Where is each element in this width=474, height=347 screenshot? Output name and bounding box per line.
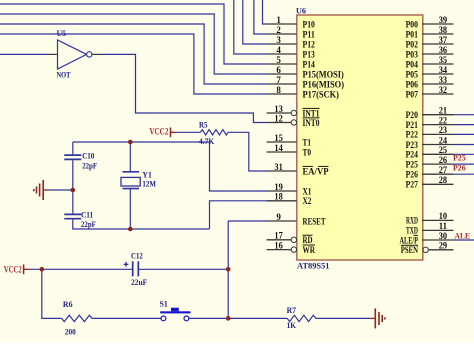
svg-text:P02: P02 bbox=[406, 40, 419, 50]
svg-text:1: 1 bbox=[276, 15, 281, 25]
svg-text:23: 23 bbox=[439, 125, 448, 135]
svg-text:3: 3 bbox=[276, 35, 281, 45]
svg-text:P07: P07 bbox=[406, 90, 419, 100]
svg-text:PSEN: PSEN bbox=[401, 246, 418, 256]
svg-text:U5: U5 bbox=[57, 28, 67, 38]
svg-text:27: 27 bbox=[439, 165, 448, 175]
svg-text:8: 8 bbox=[276, 85, 281, 95]
svg-text:P26: P26 bbox=[453, 162, 466, 172]
svg-text:12: 12 bbox=[274, 113, 283, 123]
svg-text:13: 13 bbox=[274, 104, 283, 114]
svg-text:C10: C10 bbox=[82, 150, 94, 160]
svg-text:1K: 1K bbox=[287, 320, 297, 330]
svg-text:39: 39 bbox=[439, 15, 448, 25]
svg-text:22pF: 22pF bbox=[81, 219, 96, 229]
svg-text:10: 10 bbox=[439, 211, 448, 221]
svg-text:RESET: RESET bbox=[303, 217, 327, 227]
svg-text:37: 37 bbox=[439, 35, 448, 45]
svg-text:12M: 12M bbox=[142, 178, 156, 188]
svg-text:4.7K: 4.7K bbox=[199, 136, 215, 146]
svg-text:P27: P27 bbox=[406, 181, 419, 191]
svg-text:P05: P05 bbox=[406, 70, 419, 80]
svg-text:P24: P24 bbox=[406, 151, 419, 161]
svg-text:P03: P03 bbox=[406, 50, 419, 60]
svg-text:R7: R7 bbox=[287, 305, 297, 315]
svg-text:34: 34 bbox=[439, 65, 448, 75]
svg-text:T0: T0 bbox=[303, 148, 312, 158]
svg-text:P16(MISO): P16(MISO) bbox=[303, 79, 345, 90]
svg-text:R5: R5 bbox=[199, 119, 207, 129]
svg-text:RXD: RXD bbox=[406, 217, 418, 227]
svg-text:7: 7 bbox=[276, 75, 281, 85]
svg-text:X2: X2 bbox=[303, 197, 312, 207]
svg-text:32: 32 bbox=[439, 85, 448, 95]
svg-text:T1: T1 bbox=[303, 138, 312, 148]
svg-text:P10: P10 bbox=[303, 20, 316, 30]
svg-text:28: 28 bbox=[439, 175, 448, 185]
svg-text:36: 36 bbox=[439, 45, 448, 55]
svg-text:VCC2: VCC2 bbox=[4, 265, 22, 275]
svg-text:17: 17 bbox=[274, 231, 283, 241]
svg-text:6: 6 bbox=[276, 65, 281, 75]
svg-text:P26: P26 bbox=[406, 171, 419, 181]
svg-text:P04: P04 bbox=[406, 60, 419, 70]
svg-text:C12: C12 bbox=[131, 250, 143, 260]
svg-text:P21: P21 bbox=[406, 121, 419, 131]
svg-text:2: 2 bbox=[276, 25, 281, 35]
svg-text:ALE: ALE bbox=[455, 231, 471, 241]
svg-text:22: 22 bbox=[439, 115, 448, 125]
svg-text:INT0: INT0 bbox=[303, 119, 320, 129]
svg-text:P20: P20 bbox=[406, 111, 419, 121]
svg-text:200: 200 bbox=[65, 327, 76, 337]
svg-text:NOT: NOT bbox=[57, 70, 71, 80]
svg-text:P00: P00 bbox=[406, 20, 419, 30]
svg-text:S1: S1 bbox=[160, 299, 168, 309]
svg-text:P15(MOSI): P15(MOSI) bbox=[303, 69, 344, 80]
svg-text:P13: P13 bbox=[303, 50, 316, 60]
svg-text:4: 4 bbox=[276, 45, 281, 55]
svg-text:U6: U6 bbox=[296, 6, 307, 16]
svg-text:22uF: 22uF bbox=[131, 277, 147, 287]
svg-text:15: 15 bbox=[274, 133, 283, 143]
svg-text:P01: P01 bbox=[406, 30, 419, 40]
svg-text:16: 16 bbox=[274, 240, 283, 250]
svg-text:33: 33 bbox=[439, 75, 448, 85]
svg-text:18: 18 bbox=[274, 192, 283, 202]
svg-text:WR: WR bbox=[303, 246, 316, 256]
svg-text:5: 5 bbox=[276, 55, 281, 65]
svg-text:31: 31 bbox=[274, 162, 283, 172]
svg-text:29: 29 bbox=[439, 241, 448, 251]
svg-text:P11: P11 bbox=[303, 30, 316, 40]
svg-text:P25: P25 bbox=[453, 152, 466, 162]
svg-text:P12: P12 bbox=[303, 40, 316, 50]
svg-text:22pF: 22pF bbox=[82, 160, 97, 170]
svg-text:38: 38 bbox=[439, 25, 448, 35]
svg-text:R6: R6 bbox=[63, 299, 73, 309]
svg-text:24: 24 bbox=[439, 135, 448, 145]
svg-text:26: 26 bbox=[439, 155, 448, 165]
svg-text:AT89S51: AT89S51 bbox=[297, 260, 330, 270]
svg-text:P22: P22 bbox=[406, 131, 419, 141]
svg-text:P23: P23 bbox=[406, 141, 419, 151]
svg-text:VCC2: VCC2 bbox=[149, 127, 168, 137]
svg-text:EA/VP: EA/VP bbox=[303, 167, 329, 177]
svg-text:35: 35 bbox=[439, 55, 448, 65]
svg-text:14: 14 bbox=[274, 143, 283, 153]
svg-text:11: 11 bbox=[439, 221, 448, 231]
svg-text:X1: X1 bbox=[303, 187, 312, 197]
svg-text:P17(SCK): P17(SCK) bbox=[303, 89, 340, 100]
svg-text:21: 21 bbox=[439, 106, 448, 116]
svg-text:P06: P06 bbox=[406, 80, 419, 90]
svg-text:P14: P14 bbox=[303, 60, 316, 70]
svg-text:25: 25 bbox=[439, 145, 448, 155]
svg-text:30: 30 bbox=[439, 231, 448, 241]
svg-text:19: 19 bbox=[274, 182, 283, 192]
svg-text:P25: P25 bbox=[406, 160, 419, 170]
svg-text:9: 9 bbox=[276, 212, 281, 222]
